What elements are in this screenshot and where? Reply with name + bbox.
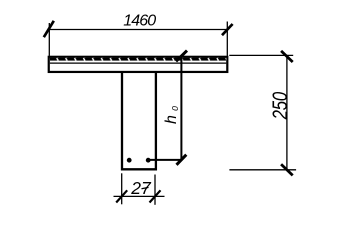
svg-text:250: 250 [269, 92, 292, 121]
dim 250 extension bottom [229, 169, 296, 171]
dim 250 extension top [229, 54, 293, 56]
dim 1460 tick right [222, 24, 233, 35]
dim 27 line [114, 195, 165, 197]
dim 27 extension right [154, 175, 156, 205]
dim h0 connector [148, 159, 181, 161]
rebar dot right [146, 158, 151, 163]
dim 1460 extension right [226, 22, 228, 56]
dim 250 tick bottom [281, 164, 293, 175]
svg-text:h0: h0 [163, 106, 180, 124]
flange outline [49, 57, 228, 72]
dim 250 line [286, 55, 288, 169]
dim 1460 line [49, 29, 228, 31]
svg-text:1460: 1460 [123, 13, 156, 30]
dim h0 tick bottom [177, 155, 187, 165]
dim h0 line [180, 57, 182, 160]
dim 1460 tick left [44, 21, 54, 37]
dim 27 crossbar on 7 [142, 187, 149, 188]
dim 27 tick right [150, 190, 161, 202]
slab hatch band [50, 58, 226, 61]
dim 250 tick top [281, 51, 293, 62]
dim 27 extension left [121, 173, 123, 204]
rebar dot left [127, 158, 132, 163]
slab inner line [50, 62, 226, 64]
svg-text:27: 27 [130, 178, 152, 198]
dim 1460 extension left [48, 23, 50, 56]
dim 27 tick left [116, 190, 127, 202]
web [122, 72, 156, 169]
dim h0 tick top [176, 51, 187, 62]
